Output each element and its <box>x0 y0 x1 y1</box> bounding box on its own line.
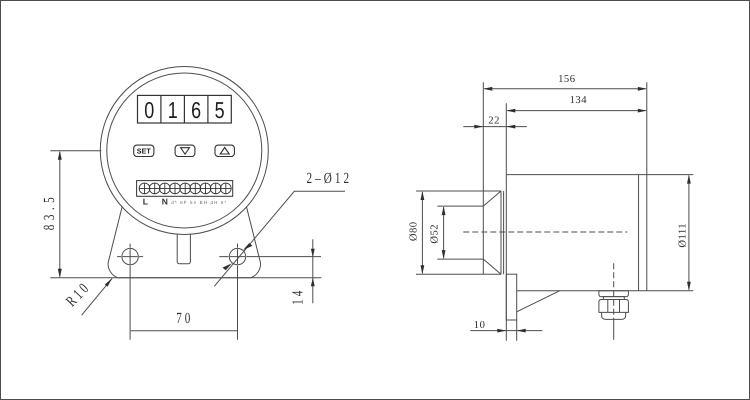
bore top (O52) <box>437 205 483 207</box>
cable gland hex nut <box>599 300 629 313</box>
svg-text:14: 14 <box>289 288 306 305</box>
snout outer top (O80) <box>416 190 501 192</box>
mounting bracket (front view trapezoid) <box>108 193 260 277</box>
body bottom edge <box>517 290 694 292</box>
dimension 14 <box>311 239 315 303</box>
baseline (mounting surface) <box>50 277 321 279</box>
cable gland dome <box>602 312 626 319</box>
dimension O52 <box>442 206 446 259</box>
svg-text:d* 8F 5# BH dH 8*: d* 8F 5# BH dH 8* <box>171 200 226 205</box>
svg-text:22: 22 <box>488 115 500 126</box>
svg-text:156: 156 <box>558 74 575 85</box>
svg-text:83.5: 83.5 <box>41 193 58 230</box>
R10 leader <box>82 278 113 315</box>
body top edge <box>506 174 693 176</box>
dimension O80 <box>421 191 425 274</box>
snout outer bottom (O80) <box>416 273 501 275</box>
dimension 134 <box>506 109 647 113</box>
up button <box>215 145 234 156</box>
dimension 70 <box>131 330 237 332</box>
svg-text:2–Ø12: 2–Ø12 <box>307 170 353 187</box>
svg-text:134: 134 <box>570 95 588 106</box>
bore bottom (O52) <box>437 258 483 260</box>
end cap left edge <box>638 175 640 291</box>
SET button <box>134 145 154 156</box>
left mounting hole <box>117 244 143 340</box>
terminal strip frame <box>137 181 233 197</box>
bottom tab (front view) <box>177 227 190 263</box>
extension line from circle left <box>50 150 101 152</box>
down button <box>175 145 195 156</box>
horizontal centerline (dashed) <box>463 231 627 233</box>
svg-text:L: L <box>143 197 148 207</box>
side bracket plate <box>506 274 516 341</box>
svg-text:Ø52: Ø52 <box>430 224 441 244</box>
terminal screws (9 circles with crosses) <box>139 183 231 194</box>
display cell dividers <box>161 95 208 123</box>
cone diagonal top <box>483 191 501 206</box>
dimension 83.5 <box>58 151 62 278</box>
dimension O111 <box>687 175 691 291</box>
gland centerline (dashed) <box>613 263 615 290</box>
svg-text:1: 1 <box>168 97 178 123</box>
outer circle (front housing) <box>100 67 268 235</box>
flange left edge / extension line <box>482 82 484 274</box>
inner circle (front housing) <box>107 73 262 228</box>
svg-text:70: 70 <box>176 310 193 327</box>
cone diagonal bottom <box>483 259 501 274</box>
svg-text:Ø111: Ø111 <box>677 223 688 248</box>
end cap right edge / extension line <box>646 82 648 290</box>
svg-text:6: 6 <box>191 97 201 123</box>
svg-text:0: 0 <box>144 97 154 123</box>
gusset diagonal <box>517 291 560 312</box>
svg-text:5: 5 <box>215 97 225 123</box>
svg-text:Ø80: Ø80 <box>408 221 419 241</box>
right mounting hole <box>219 244 321 340</box>
cable gland step <box>603 297 624 300</box>
dimension 22 <box>463 125 527 129</box>
flange right edge / extension line <box>505 103 507 340</box>
svg-text:SET: SET <box>137 147 152 156</box>
svg-text:N: N <box>162 197 168 207</box>
dimension 10 <box>470 329 542 333</box>
cable gland flange <box>599 291 629 297</box>
svg-text:10: 10 <box>474 320 486 331</box>
dimension 156 <box>483 87 647 91</box>
boss face lines <box>501 191 504 274</box>
display window frame <box>138 95 232 123</box>
2-O12 leader <box>214 191 345 286</box>
